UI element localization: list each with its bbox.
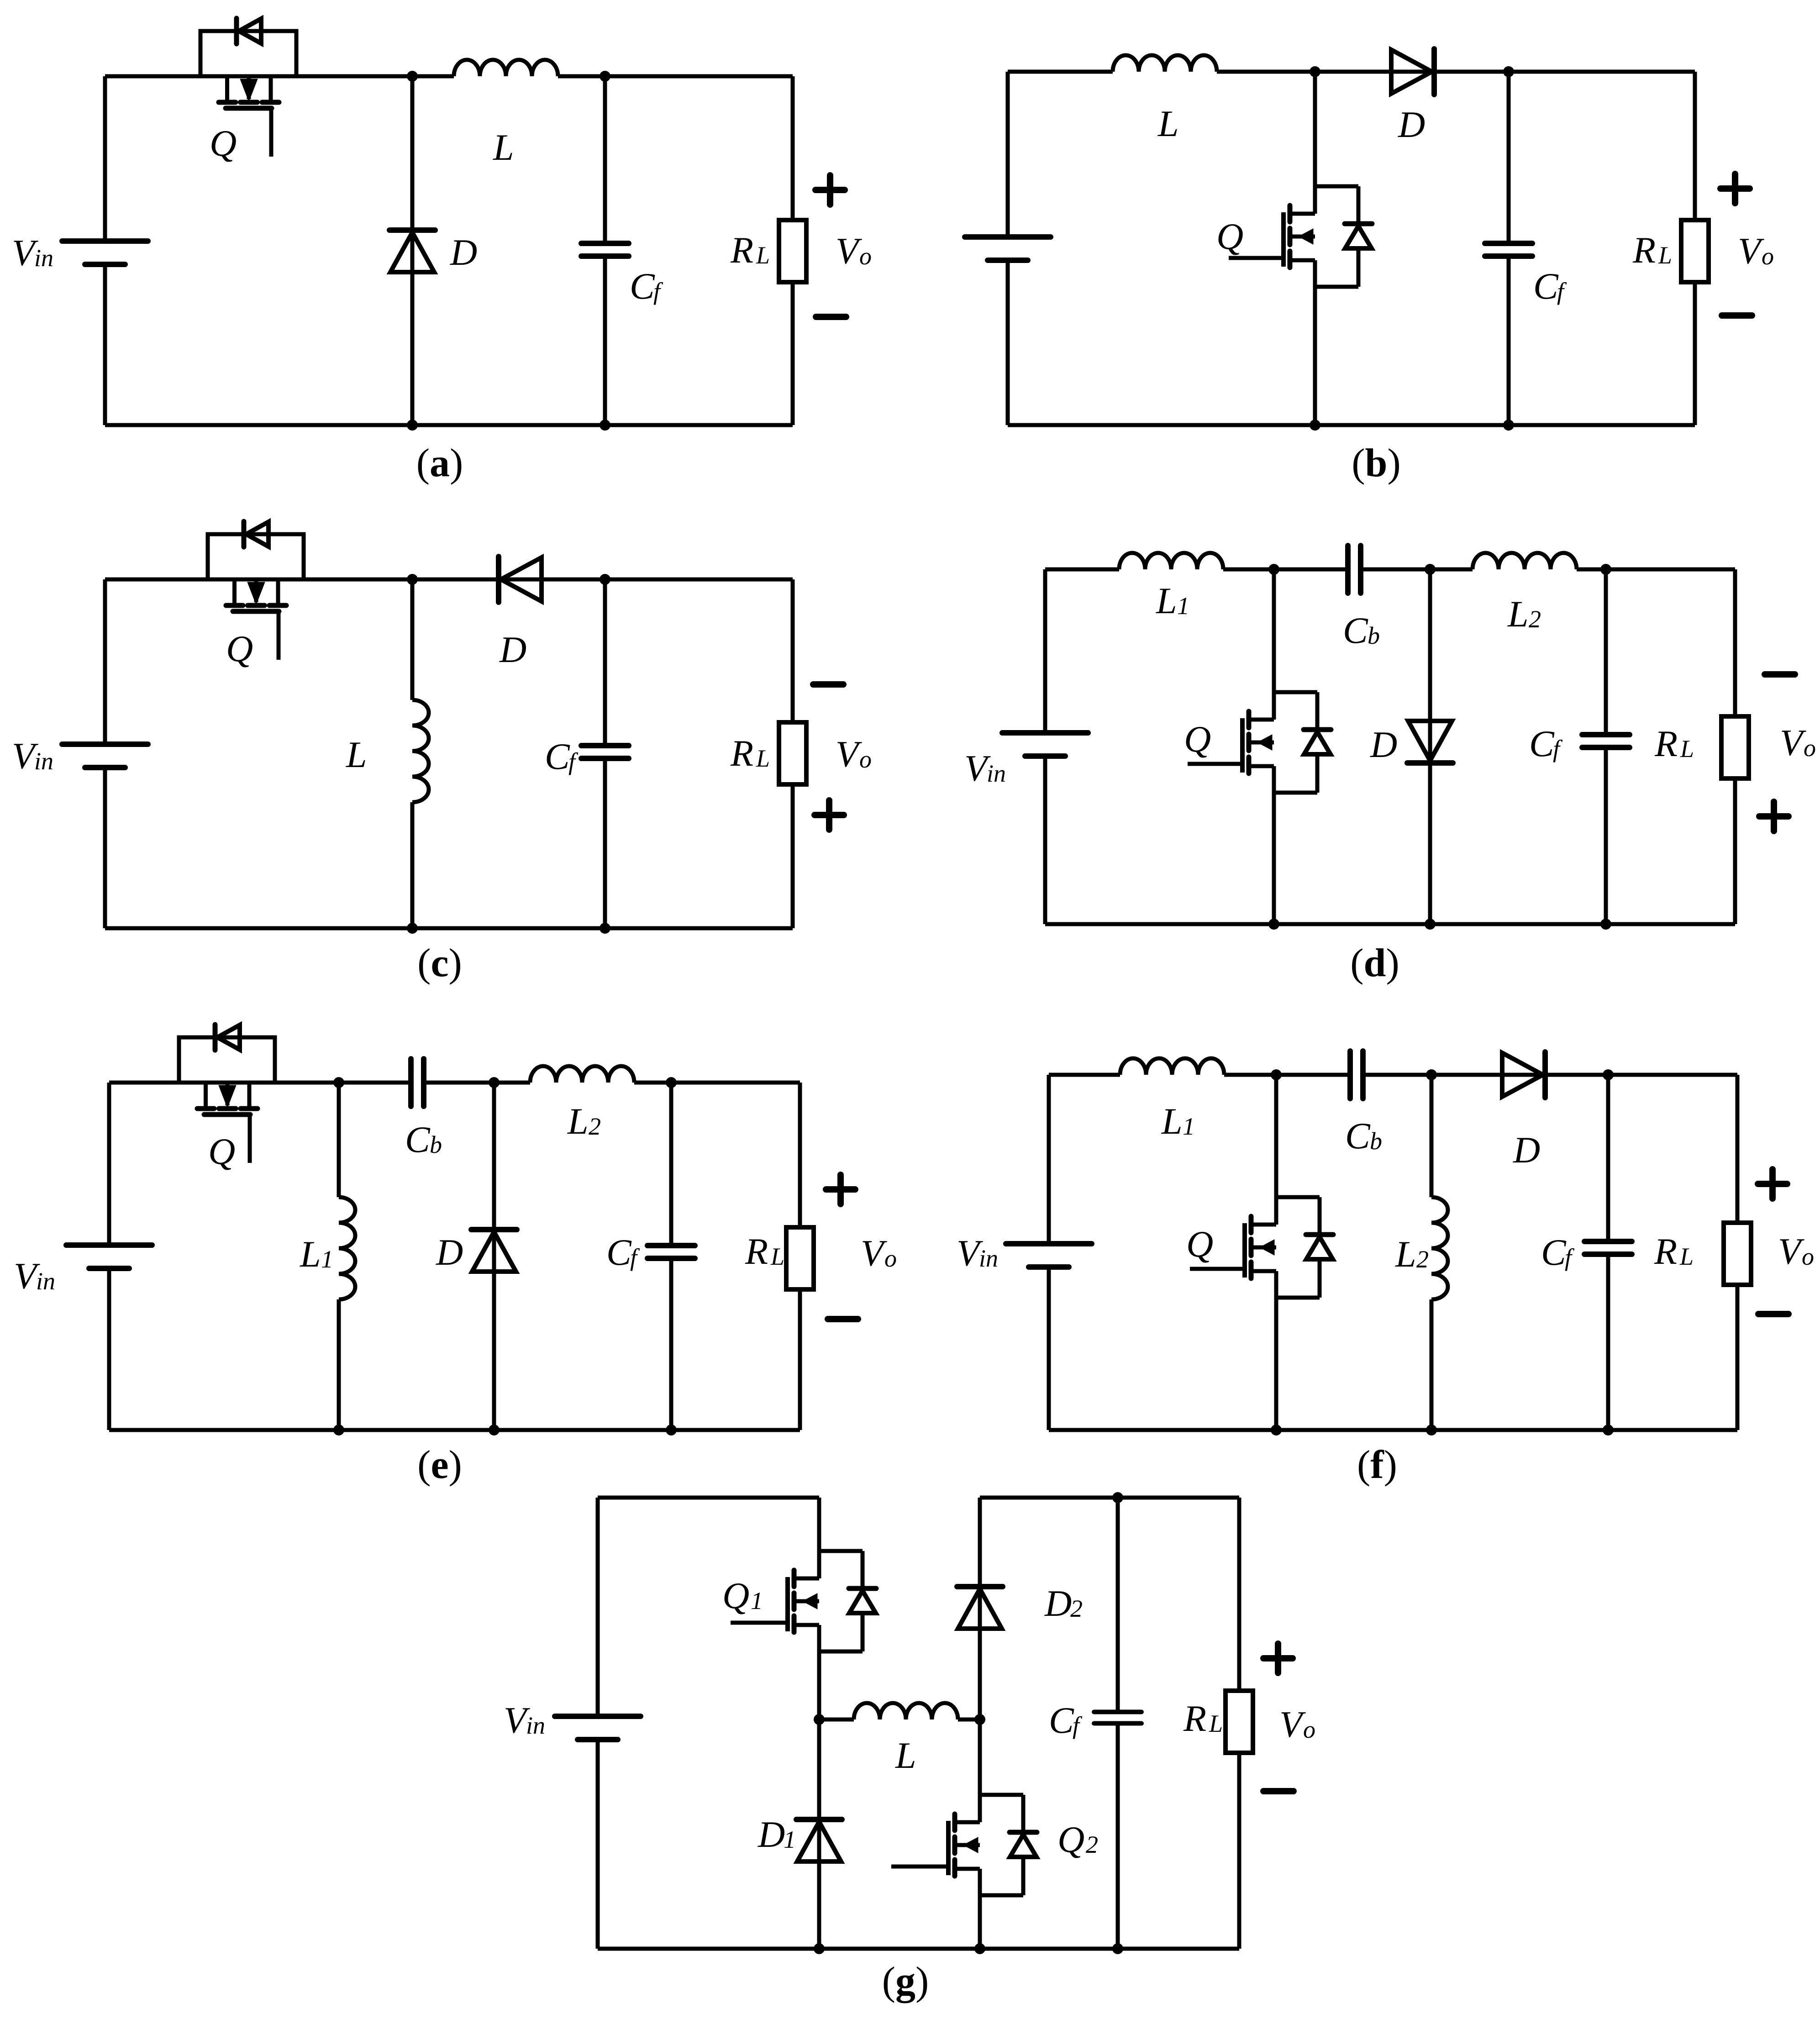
svg-text:C: C	[1049, 1699, 1074, 1741]
svg-text:C: C	[630, 265, 655, 307]
svg-text:(e): (e)	[417, 1443, 462, 1487]
svg-text:o: o	[1303, 1716, 1315, 1743]
svg-text:R: R	[730, 732, 753, 774]
svg-text:D: D	[1398, 104, 1425, 145]
svg-text:D: D	[757, 1814, 785, 1855]
svg-text:(b): (b)	[1352, 441, 1401, 485]
svg-text:V: V	[861, 1232, 887, 1274]
svg-text:L: L	[1161, 1100, 1183, 1142]
svg-text:b: b	[1368, 622, 1380, 649]
svg-text:o: o	[859, 242, 872, 270]
svg-text:D: D	[1513, 1129, 1540, 1171]
svg-text:C: C	[1345, 1115, 1371, 1157]
svg-text:in: in	[34, 747, 53, 775]
svg-text:in: in	[34, 244, 53, 272]
svg-text:L: L	[770, 1243, 784, 1270]
svg-text:2: 2	[1416, 1246, 1429, 1273]
svg-text:L: L	[1507, 593, 1529, 635]
svg-text:D: D	[450, 231, 477, 273]
svg-text:2: 2	[1070, 1595, 1083, 1622]
svg-text:L: L	[1209, 1710, 1223, 1737]
svg-text:R: R	[1654, 1230, 1677, 1272]
svg-text:V: V	[1279, 1704, 1306, 1745]
svg-text:1: 1	[751, 1587, 763, 1614]
svg-text:in: in	[987, 760, 1006, 787]
svg-text:R: R	[1183, 1698, 1206, 1739]
svg-text:D: D	[499, 629, 526, 670]
svg-text:V: V	[1738, 230, 1764, 272]
svg-text:C: C	[545, 736, 570, 777]
svg-text:Q: Q	[226, 628, 253, 669]
svg-text:L: L	[567, 1100, 589, 1142]
svg-text:b: b	[1370, 1127, 1382, 1155]
svg-text:V: V	[836, 733, 862, 775]
svg-text:o: o	[884, 1245, 897, 1272]
svg-text:Q: Q	[722, 1575, 749, 1616]
svg-text:Q: Q	[208, 1130, 235, 1172]
svg-text:C: C	[405, 1119, 431, 1160]
svg-text:L: L	[493, 126, 514, 168]
svg-text:b: b	[430, 1131, 442, 1158]
svg-text:(g): (g)	[882, 1959, 929, 2003]
svg-text:(a): (a)	[416, 441, 463, 485]
svg-text:R: R	[730, 229, 753, 271]
svg-text:L: L	[1679, 1243, 1694, 1270]
svg-text:L: L	[346, 734, 367, 775]
svg-text:R: R	[1632, 229, 1656, 271]
svg-text:D: D	[1044, 1583, 1072, 1624]
svg-text:R: R	[745, 1230, 768, 1272]
svg-text:V: V	[836, 230, 862, 272]
svg-text:L: L	[895, 1735, 916, 1776]
svg-text:C: C	[1533, 265, 1559, 307]
svg-text:Q: Q	[210, 122, 237, 164]
svg-text:1: 1	[784, 1826, 796, 1853]
svg-text:V: V	[1780, 722, 1806, 763]
svg-text:Q: Q	[1057, 1819, 1084, 1860]
svg-text:L: L	[1658, 242, 1672, 269]
svg-text:o: o	[1804, 734, 1816, 762]
svg-text:o: o	[859, 746, 872, 773]
svg-text:L: L	[756, 745, 770, 772]
svg-text:L: L	[1395, 1233, 1416, 1275]
svg-text:1: 1	[1183, 1113, 1195, 1140]
svg-text:L: L	[300, 1233, 321, 1275]
svg-text:2: 2	[1086, 1831, 1098, 1858]
svg-text:L: L	[1680, 735, 1694, 762]
svg-text:L: L	[756, 242, 770, 269]
svg-text:(c): (c)	[417, 941, 462, 985]
svg-text:C: C	[1343, 610, 1368, 651]
svg-text:L: L	[1156, 580, 1177, 621]
svg-text:C: C	[1541, 1231, 1567, 1273]
svg-text:2: 2	[1529, 605, 1541, 633]
svg-text:1: 1	[321, 1246, 333, 1273]
svg-text:o: o	[1762, 242, 1774, 270]
svg-text:in: in	[36, 1267, 55, 1295]
svg-text:in: in	[526, 1712, 545, 1739]
svg-text:L: L	[1157, 103, 1179, 144]
svg-text:V: V	[1778, 1230, 1804, 1272]
svg-text:o: o	[1802, 1243, 1814, 1270]
svg-text:1: 1	[1177, 592, 1189, 620]
svg-text:(f): (f)	[1357, 1443, 1397, 1487]
svg-text:(d): (d)	[1350, 941, 1399, 985]
svg-text:Q: Q	[1216, 216, 1243, 257]
svg-text:R: R	[1654, 723, 1678, 764]
svg-text:2: 2	[589, 1113, 601, 1140]
svg-text:C: C	[1529, 723, 1555, 764]
svg-text:Q: Q	[1184, 718, 1211, 760]
svg-text:D: D	[436, 1231, 463, 1273]
svg-text:C: C	[606, 1231, 632, 1273]
svg-text:Q: Q	[1186, 1223, 1213, 1265]
svg-text:in: in	[979, 1245, 998, 1272]
svg-text:D: D	[1370, 724, 1397, 765]
